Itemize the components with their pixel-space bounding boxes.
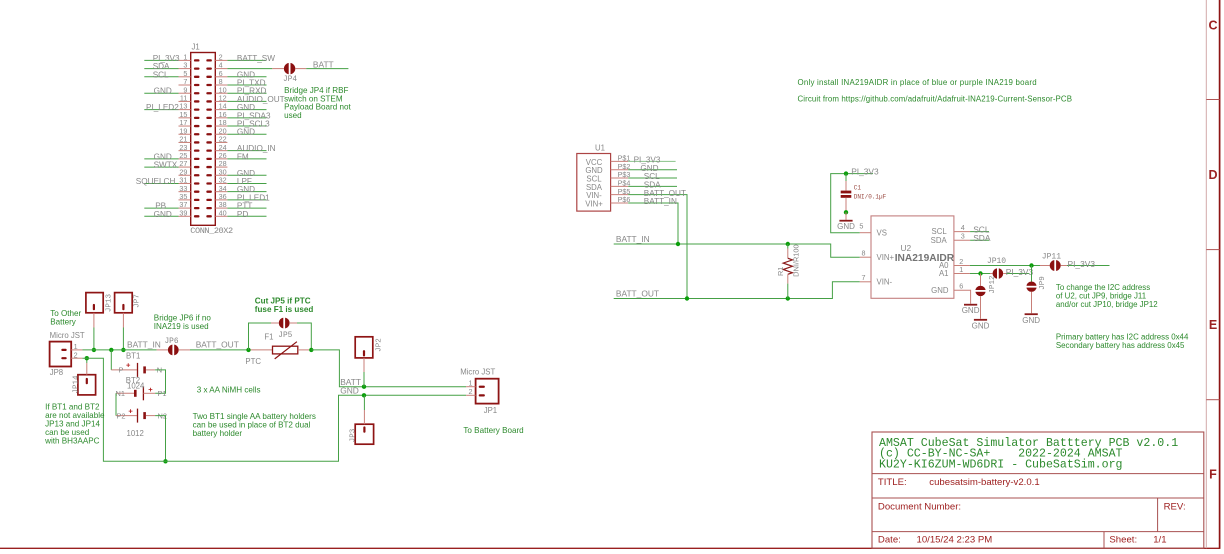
wire net PI_SDA3 (J1 pin 16) bbox=[227, 111, 271, 120]
svg-text:SQUELCH: SQUELCH bbox=[136, 177, 176, 186]
svg-text:1: 1 bbox=[959, 265, 963, 274]
svg-text:+: + bbox=[148, 385, 153, 394]
svg-text:BATT_IN: BATT_IN bbox=[644, 197, 677, 206]
J1 right pin stubs bbox=[215, 60, 227, 216]
svg-text:R1: R1 bbox=[776, 267, 785, 276]
svg-text:fuse F1 is used: fuse F1 is used bbox=[255, 305, 314, 314]
wire net BATT from F1 to JP1 pin 1 bbox=[311, 350, 466, 387]
svg-text:Micro JST: Micro JST bbox=[460, 368, 495, 377]
svg-text:P: P bbox=[119, 365, 124, 374]
J1 right pin numbers bbox=[219, 53, 227, 218]
U2 left pin names bbox=[877, 229, 895, 287]
wire JP5 bypass right leg bbox=[297, 323, 311, 350]
svg-text:3: 3 bbox=[961, 232, 965, 241]
wire net BATT_OUT from U1 P$5 bbox=[628, 189, 687, 299]
wire net PI_3V3 at U1 P$1 bbox=[628, 155, 675, 164]
svg-text:with BH3AAPC: with BH3AAPC bbox=[44, 437, 100, 446]
wire net PI_3V3 to U2 VS bbox=[831, 166, 879, 232]
wire net SDA (J1 pin 3) bbox=[144, 62, 178, 71]
wire net AUDIO_OUT (J1 pin 12) bbox=[227, 95, 284, 104]
svg-text:JP8: JP8 bbox=[50, 368, 63, 377]
svg-text:GND: GND bbox=[972, 321, 990, 330]
wire net BATT_SW (J1 pin 2) bbox=[227, 54, 275, 63]
svg-text:1024: 1024 bbox=[127, 381, 145, 390]
note: bridge JP4 if RBF switch bbox=[284, 86, 351, 120]
wire net PI_3V3 (J1 pin 1) bbox=[144, 54, 180, 63]
wire R1 top lead bbox=[787, 244, 789, 258]
svg-text:J1: J1 bbox=[192, 43, 200, 52]
svg-text:VS: VS bbox=[877, 229, 887, 238]
junction PI_3V3 / C1 bbox=[844, 171, 848, 175]
svg-text:JP3: JP3 bbox=[350, 428, 358, 442]
wire R1 bottom lead bbox=[787, 274, 789, 298]
svg-text:C1: C1 bbox=[854, 185, 862, 192]
svg-text:JP9: JP9 bbox=[1039, 276, 1047, 290]
svg-text:PTC: PTC bbox=[245, 357, 261, 366]
svg-text:and/or cut JP10, bridge JP12: and/or cut JP10, bridge JP12 bbox=[1056, 300, 1158, 309]
wire net SCL at U2 pin 4 bbox=[970, 225, 990, 235]
jumper header JP13 bbox=[86, 293, 103, 328]
JP8 pin stubs bbox=[71, 350, 82, 358]
wire net GND (J1 pin 9) bbox=[144, 87, 178, 96]
svg-text:PI_3V3: PI_3V3 bbox=[851, 166, 879, 176]
wire net PI_3V3 after JP10 bbox=[1006, 267, 1034, 277]
junction BATT_IN / BT1 positive bbox=[109, 348, 113, 352]
svg-text:+: + bbox=[126, 361, 131, 370]
wire net GND (J1 pin 14) bbox=[227, 103, 266, 112]
title block divider under TITLE row bbox=[872, 497, 1204, 499]
svg-text:BATT_IN: BATT_IN bbox=[616, 234, 650, 244]
svg-text:40: 40 bbox=[219, 208, 227, 217]
svg-text:SCL: SCL bbox=[153, 70, 169, 79]
svg-text:Secondary battery has address: Secondary battery has address 0x45 bbox=[1056, 341, 1185, 350]
wire net BATT_OUT rail bbox=[614, 282, 860, 299]
note: to other battery bbox=[50, 309, 81, 327]
junction BATT_IN / JP13 bbox=[92, 348, 96, 352]
svg-text:PI_LED2: PI_LED2 bbox=[146, 103, 179, 112]
svg-text:3 x AA NiMH cells: 3 x AA NiMH cells bbox=[197, 386, 261, 395]
svg-text:TITLE:: TITLE: bbox=[878, 477, 907, 488]
svg-text:5: 5 bbox=[859, 222, 863, 231]
svg-text:BATT_IN: BATT_IN bbox=[127, 340, 161, 350]
svg-text:INA219 is used: INA219 is used bbox=[154, 322, 209, 331]
svg-text:JP13: JP13 bbox=[106, 293, 114, 312]
jumper JP11 bbox=[1040, 260, 1067, 272]
wire JP3 to GND bbox=[363, 395, 365, 410]
junction ground rail / battery negative bbox=[163, 459, 167, 463]
title block outer box bbox=[872, 432, 1204, 548]
jumper JP10 bbox=[990, 268, 1006, 280]
wire net BATT from J1 pin 4 to jumper JP4 bbox=[227, 68, 284, 70]
U1 pin stubs bbox=[611, 161, 629, 203]
wire net FM (J1 pin 26) bbox=[227, 152, 266, 161]
wire A0 to JP9 bbox=[1031, 266, 1033, 282]
svg-text:Document Number:: Document Number: bbox=[878, 502, 961, 513]
wire net SCL at U1 P$3 bbox=[628, 172, 677, 181]
svg-text:To Battery Board: To Battery Board bbox=[463, 426, 523, 435]
svg-text:JP7: JP7 bbox=[133, 294, 141, 308]
JP1 pin stubs bbox=[466, 387, 476, 396]
jumper JP5 bbox=[271, 317, 297, 329]
wire net BATT_OUT from JP6 to F1 bbox=[190, 340, 249, 350]
wire net GND (J1 pin 25) bbox=[144, 152, 178, 161]
wire net PI_TXD (J1 pin 8) bbox=[227, 79, 266, 88]
svg-text:SDA: SDA bbox=[931, 236, 948, 245]
frame: sheet border bottom line bbox=[0, 547, 1220, 549]
svg-text:D: D bbox=[1208, 168, 1217, 182]
U1 pin labels P$1-P$6 bbox=[618, 154, 631, 205]
svg-text:cubesatsim-battery-v2.0.1: cubesatsim-battery-v2.0.1 bbox=[929, 477, 1039, 488]
wire net GND (J1 pin 39) bbox=[144, 210, 178, 219]
wire net A1 from U2 pin 1 bbox=[970, 273, 990, 275]
wire JP2 to BATT bbox=[363, 372, 365, 387]
svg-text:PD: PD bbox=[237, 210, 248, 219]
junction BATT_OUT / U1 P$5 bbox=[685, 296, 689, 300]
svg-text:BATT: BATT bbox=[340, 377, 361, 387]
svg-text:Battery: Battery bbox=[50, 318, 77, 327]
wire net PB (J1 pin 37) bbox=[144, 202, 178, 211]
svg-text:JP4: JP4 bbox=[283, 76, 297, 84]
svg-text:JP11: JP11 bbox=[1042, 252, 1061, 261]
note: bridge JP6 if no INA219 bbox=[154, 313, 212, 331]
svg-text:BATT_OUT: BATT_OUT bbox=[196, 340, 239, 350]
JP8 pin numbers bbox=[74, 342, 78, 359]
svg-text:JP1: JP1 bbox=[484, 406, 497, 415]
svg-text:BT1: BT1 bbox=[126, 352, 140, 361]
junction A0 / JP9 bbox=[1029, 263, 1033, 267]
svg-text:CONN_20X2: CONN_20X2 bbox=[190, 226, 233, 236]
svg-text:U1: U1 bbox=[595, 144, 605, 153]
svg-text:U2: U2 bbox=[901, 243, 912, 253]
svg-text:Date:: Date: bbox=[878, 535, 901, 546]
jumper JP12 bbox=[975, 286, 986, 319]
svg-text:10/15/24 2:23 PM: 10/15/24 2:23 PM bbox=[917, 535, 993, 546]
wire U2 GND pin 6 to ground bbox=[954, 290, 971, 304]
op-amp U2 INA219AIDR body bbox=[871, 216, 954, 298]
J1 left pin stubs bbox=[179, 60, 191, 216]
battery BT1 cell bbox=[111, 350, 162, 377]
note: cut JP5 if PTC fuse F1 is used bbox=[255, 297, 314, 315]
wire JP5 bypass left leg bbox=[249, 323, 272, 350]
junction C1 / GND bbox=[844, 210, 848, 214]
jumper header JP3 bbox=[355, 410, 373, 444]
svg-text:SCL: SCL bbox=[932, 227, 948, 236]
ground symbol below C1 bbox=[837, 212, 855, 231]
wire net SQUELCH (J1 pin 31) bbox=[136, 177, 179, 186]
wire net LPF (J1 pin 32) bbox=[227, 177, 266, 186]
junction BATT / F1 right bbox=[309, 348, 313, 352]
wire net GND at U1 P$2 bbox=[628, 164, 677, 173]
wire net GND (J1 pin 34) bbox=[227, 185, 266, 194]
jumper JP4 bbox=[284, 62, 295, 74]
svg-text:F1: F1 bbox=[264, 333, 273, 342]
jumper JP9 bbox=[1026, 282, 1037, 314]
svg-text:VIN-: VIN- bbox=[877, 278, 893, 287]
frame: row divider E/F bbox=[1206, 399, 1219, 401]
connector JP1 Micro JST body bbox=[476, 379, 499, 404]
svg-text:BATT_SW: BATT_SW bbox=[237, 54, 275, 63]
wire net BATT after JP4 bbox=[295, 60, 348, 70]
svg-text:used: used bbox=[284, 111, 302, 120]
battery BT2 cell A bbox=[116, 385, 167, 400]
jumper JP6 bbox=[157, 344, 190, 356]
svg-text:GND: GND bbox=[1022, 316, 1040, 325]
jumper header JP14 bbox=[78, 363, 96, 395]
wire BT2 N2 to ground rail bbox=[155, 416, 165, 462]
note: primary/secondary battery I2C address bbox=[1056, 333, 1189, 351]
svg-text:PI_3V3: PI_3V3 bbox=[1006, 267, 1034, 277]
svg-text:JP5: JP5 bbox=[278, 332, 292, 340]
note: two BT1 single AA battery holders bbox=[193, 412, 316, 438]
title block Sheet column divider bbox=[1103, 532, 1105, 549]
svg-text:1/1: 1/1 bbox=[1153, 535, 1166, 546]
resistor R1 bbox=[783, 258, 792, 274]
title block divider under Document Number row bbox=[872, 531, 1204, 533]
wire net A0 from U2 pin 2 bbox=[970, 265, 1040, 267]
wire net PI_3V3 after JP11 bbox=[1067, 259, 1110, 269]
fuse F1 PTC bbox=[251, 342, 310, 359]
wire JP7 to BATT_IN bbox=[122, 328, 124, 350]
svg-text:JP14: JP14 bbox=[72, 375, 80, 394]
svg-text:DNI/0.1µF: DNI/0.1µF bbox=[854, 193, 887, 200]
svg-text:VIN+: VIN+ bbox=[585, 199, 603, 208]
wire net PI_LED1 (J1 pin 36) bbox=[227, 193, 270, 202]
svg-text:N1: N1 bbox=[116, 389, 125, 398]
connector J1 CONN_20X2 body bbox=[191, 53, 216, 226]
JP1 pin numbers bbox=[469, 378, 473, 396]
svg-text:JP6: JP6 bbox=[165, 338, 179, 346]
wire net SDA at U1 P$4 bbox=[628, 181, 677, 190]
title block divider under header bbox=[872, 473, 1204, 475]
svg-text:JP12: JP12 bbox=[989, 275, 997, 294]
wire BT1 N to BT2 P1 bbox=[155, 370, 165, 393]
wire JP14 to JP8 pin 2 bbox=[86, 358, 88, 363]
svg-text:GND: GND bbox=[237, 128, 255, 137]
svg-text:GND: GND bbox=[962, 306, 980, 315]
junction BATT / JP2 bbox=[362, 385, 366, 389]
svg-text:P1: P1 bbox=[158, 389, 167, 398]
jumper header JP2 bbox=[355, 337, 373, 372]
wire net GND (J1 pin 6) bbox=[227, 70, 266, 79]
svg-text:GND: GND bbox=[154, 87, 172, 96]
svg-text:1012: 1012 bbox=[127, 429, 144, 438]
wire net GND from JP8 pin 2 along bottom rail bbox=[82, 358, 466, 461]
svg-text:KU2Y-KI6ZUM-WD6DRI - CubeSatSi: KU2Y-KI6ZUM-WD6DRI - CubeSatSim.org bbox=[879, 459, 1123, 472]
wire net BATT_IN rail bbox=[614, 234, 860, 257]
U2 pin numbers 4 3 2 1 6 bbox=[959, 223, 965, 291]
svg-text:SDA: SDA bbox=[973, 233, 991, 243]
wire net PI_LED2 (J1 pin 13) bbox=[144, 103, 179, 112]
U1 pin names inside body bbox=[585, 158, 603, 209]
note: if BT1 and BT2 are not available bbox=[44, 403, 105, 446]
junction GND / JP3 bbox=[362, 393, 366, 397]
svg-text:JP10: JP10 bbox=[987, 257, 1006, 266]
junction BATT_OUT / F1 left / JP5 branch bbox=[246, 348, 250, 352]
junction A1 / JP12 bbox=[978, 271, 982, 275]
wire BT2 N1 to BT2 P2 bbox=[115, 393, 117, 415]
junction BATT_IN / U1 P$6 bbox=[676, 242, 680, 246]
svg-text:7: 7 bbox=[862, 273, 866, 282]
svg-text:BATT_OUT: BATT_OUT bbox=[616, 289, 659, 299]
svg-text:F: F bbox=[1209, 468, 1217, 482]
svg-text:+: + bbox=[128, 406, 133, 415]
wire net PTT (J1 pin 38) bbox=[227, 202, 266, 211]
svg-text:39: 39 bbox=[179, 208, 187, 217]
U2 right pin stubs bbox=[954, 232, 970, 274]
U2 pin numbers 5 8 7 bbox=[859, 222, 865, 283]
connector U1 body bbox=[577, 154, 611, 212]
svg-text:A1: A1 bbox=[939, 269, 949, 278]
svg-text:8: 8 bbox=[862, 249, 866, 258]
wire JP13 to BATT_IN bbox=[93, 328, 95, 350]
svg-text:GND: GND bbox=[154, 210, 172, 219]
svg-text:C: C bbox=[1208, 19, 1217, 33]
battery BT2 cell B bbox=[116, 406, 167, 422]
svg-text:REV:: REV: bbox=[1164, 502, 1186, 513]
ground symbol below JP12 bbox=[972, 320, 990, 331]
title block REV column divider bbox=[1157, 498, 1159, 532]
wire net SDA at U2 pin 3 bbox=[970, 233, 991, 243]
wire net PD (J1 pin 40) bbox=[227, 210, 266, 219]
wire net GND (J1 pin 20) bbox=[227, 128, 266, 137]
connector JP8 Micro JST body bbox=[50, 342, 72, 367]
svg-text:JP2: JP2 bbox=[375, 338, 383, 352]
frame: right column inner line bbox=[1205, 0, 1207, 548]
svg-text:BATT: BATT bbox=[313, 60, 334, 70]
U2 left pin stubs bbox=[860, 233, 871, 282]
jumper header JP7 bbox=[115, 293, 133, 328]
wire net BATT_IN from U1 P$6 bbox=[628, 197, 678, 244]
svg-text:GND: GND bbox=[837, 222, 855, 231]
svg-text:Only install INA219AIDR in pla: Only install INA219AIDR in place of blue… bbox=[798, 78, 1037, 87]
J1 left pin numbers bbox=[179, 53, 187, 218]
wire net PI_SCL3 (J1 pin 18) bbox=[227, 120, 270, 129]
svg-text:PI_3V3: PI_3V3 bbox=[1068, 259, 1096, 269]
svg-text:P2: P2 bbox=[117, 411, 126, 420]
ground symbol below U2 pin 6 bbox=[962, 305, 980, 315]
frame: right column outer line bbox=[1219, 0, 1221, 549]
svg-text:battery holder: battery holder bbox=[193, 429, 243, 438]
svg-text:GND: GND bbox=[931, 286, 949, 295]
U2 right pin names bbox=[931, 227, 950, 295]
wire net SWTX (J1 pin 27) bbox=[144, 161, 178, 170]
svg-text:VIN+: VIN+ bbox=[877, 253, 895, 262]
svg-text:DNI/R100: DNI/R100 bbox=[791, 244, 800, 276]
wire net PI_RXD (J1 pin 10) bbox=[227, 87, 266, 96]
wire net SCL (J1 pin 5) bbox=[144, 70, 178, 79]
junction JP8 pin2 / JP14 bbox=[85, 356, 89, 360]
wire A1 to JP12 bbox=[980, 274, 982, 286]
wire net BATT_IN from JP8 pin 1 to JP6 bbox=[82, 340, 160, 350]
junction BATT_OUT / R1 bbox=[786, 296, 790, 300]
junction BATT_IN / R1 bbox=[786, 242, 790, 246]
svg-text:SWTX: SWTX bbox=[154, 161, 178, 170]
note: to change the I2C address bbox=[1056, 283, 1158, 309]
svg-text:Micro JST: Micro JST bbox=[50, 331, 85, 340]
svg-text:6: 6 bbox=[959, 282, 963, 291]
ground symbol below JP9 bbox=[1022, 314, 1040, 325]
svg-text:2: 2 bbox=[469, 387, 473, 396]
capacitor C1 bbox=[841, 174, 852, 213]
frame: row divider D/E bbox=[1206, 249, 1219, 251]
svg-text:Sheet:: Sheet: bbox=[1109, 535, 1137, 546]
wire net AUDIO_IN (J1 pin 24) bbox=[227, 144, 275, 153]
svg-text:FM: FM bbox=[237, 152, 249, 161]
frame: row divider C/D bbox=[1206, 99, 1219, 101]
svg-text:Circuit from https://github.co: Circuit from https://github.com/adafruit… bbox=[798, 95, 1073, 104]
svg-text:E: E bbox=[1209, 318, 1217, 332]
junction BATT_IN / JP7 bbox=[121, 348, 125, 352]
wire net GND (J1 pin 30) bbox=[227, 169, 266, 178]
